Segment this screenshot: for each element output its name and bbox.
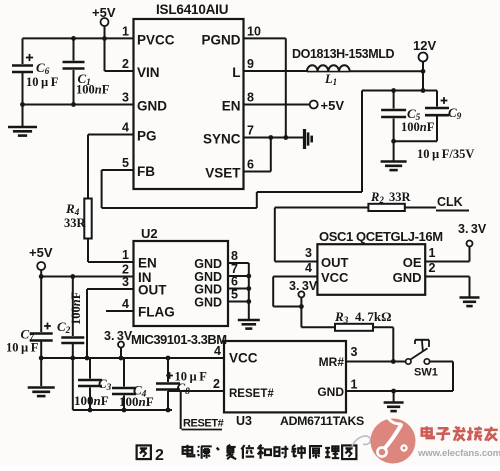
svg-text:EN: EN — [138, 256, 157, 271]
svg-text:2: 2 — [155, 447, 164, 464]
svg-text:SYNC: SYNC — [203, 132, 241, 147]
svg-text:100nF: 100nF — [74, 393, 109, 408]
svg-text:PVCC: PVCC — [137, 32, 175, 47]
svg-text:100nF: 100nF — [401, 120, 435, 134]
svg-text:4: 4 — [214, 344, 221, 358]
svg-text:GND: GND — [194, 257, 222, 271]
svg-text:U2: U2 — [141, 226, 158, 241]
svg-text:GND: GND — [137, 99, 167, 114]
svg-text:12V: 12V — [413, 38, 436, 53]
svg-text:100nF: 100nF — [69, 291, 83, 325]
svg-text:1: 1 — [351, 378, 358, 392]
svg-text:3: 3 — [351, 345, 358, 359]
svg-text:VCC: VCC — [321, 270, 349, 285]
svg-text:100nF: 100nF — [76, 83, 110, 97]
svg-text:FLAG: FLAG — [138, 305, 175, 320]
svg-text:1: 1 — [122, 248, 129, 262]
svg-text:ADM6711TAKS: ADM6711TAKS — [280, 414, 364, 428]
svg-text:33R: 33R — [64, 216, 87, 230]
svg-text:3. 3V: 3. 3V — [458, 222, 487, 236]
svg-text:EN: EN — [222, 99, 241, 114]
svg-text:+5V: +5V — [29, 245, 53, 260]
svg-text:10: 10 — [247, 24, 261, 38]
svg-text:8: 8 — [231, 249, 238, 263]
svg-text:5: 5 — [122, 156, 129, 170]
svg-text:8: 8 — [247, 91, 254, 105]
svg-text:U3: U3 — [236, 414, 252, 428]
svg-text:+5V: +5V — [321, 98, 345, 113]
svg-text:PGND: PGND — [201, 32, 240, 47]
svg-text:MR#: MR# — [319, 355, 345, 369]
svg-text:6: 6 — [247, 158, 254, 172]
svg-text:RESET#: RESET# — [183, 418, 224, 430]
svg-text:DO1813H-153MLD: DO1813H-153MLD — [292, 47, 394, 61]
svg-text:L: L — [232, 65, 240, 80]
svg-text:www.elecfans.com: www.elecfans.com — [417, 448, 500, 459]
svg-text:GND: GND — [194, 296, 222, 310]
svg-text:VSET: VSET — [205, 166, 241, 181]
svg-text:33R: 33R — [389, 190, 412, 204]
svg-text:1: 1 — [429, 246, 436, 260]
svg-text:4: 4 — [305, 261, 312, 275]
svg-text:GND: GND — [317, 385, 344, 399]
svg-text:RESET#: RESET# — [229, 388, 274, 400]
svg-text:9: 9 — [247, 57, 254, 71]
svg-text:OUT: OUT — [138, 283, 167, 298]
svg-text:GND: GND — [194, 283, 222, 297]
svg-text:10 µ F: 10 µ F — [6, 341, 39, 355]
svg-text:2: 2 — [122, 57, 129, 71]
svg-text:ISL6410AIU: ISL6410AIU — [156, 2, 228, 17]
svg-text:4: 4 — [122, 121, 129, 135]
svg-text:OSC1 QCETGLJ-16M: OSC1 QCETGLJ-16M — [319, 229, 443, 244]
svg-text:5: 5 — [231, 288, 238, 302]
svg-text:7: 7 — [247, 124, 254, 138]
svg-text:FB: FB — [137, 164, 155, 179]
svg-text:OE: OE — [403, 255, 422, 270]
svg-text:2: 2 — [429, 261, 436, 275]
svg-text:CLK: CLK — [437, 195, 463, 209]
svg-text:3: 3 — [122, 91, 129, 105]
svg-text:3. 3V: 3. 3V — [104, 329, 133, 343]
svg-text:MIC39101-3.3BM: MIC39101-3.3BM — [131, 332, 227, 347]
svg-text:10 µ F/35V: 10 µ F/35V — [417, 147, 474, 161]
svg-text:10 µ F: 10 µ F — [26, 75, 59, 89]
svg-text:PG: PG — [137, 129, 157, 144]
svg-text:100nF: 100nF — [119, 394, 154, 409]
svg-text:6: 6 — [231, 275, 238, 289]
svg-text:3: 3 — [305, 246, 312, 260]
svg-text:4: 4 — [122, 297, 129, 311]
svg-text:GND: GND — [393, 270, 422, 285]
svg-text:1: 1 — [122, 24, 129, 38]
svg-text:VIN: VIN — [137, 65, 160, 80]
svg-text:2: 2 — [213, 377, 220, 391]
svg-text:OUT: OUT — [321, 255, 349, 270]
svg-text:SW1: SW1 — [414, 367, 438, 379]
svg-text:3. 3V: 3. 3V — [289, 279, 318, 293]
svg-text:VCC: VCC — [229, 351, 258, 366]
svg-text:4. 7kΩ: 4. 7kΩ — [355, 309, 392, 324]
